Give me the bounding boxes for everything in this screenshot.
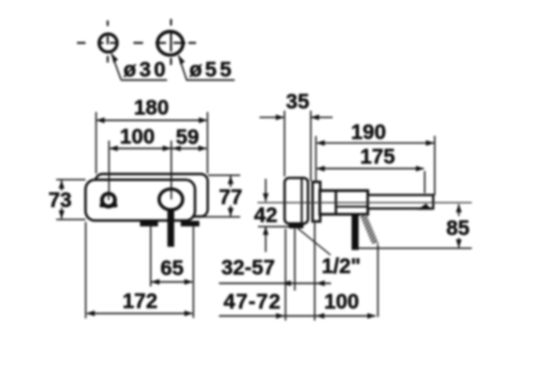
svg-text:ø30: ø30	[123, 58, 168, 81]
svg-text:73: 73	[48, 189, 71, 212]
svg-text:172: 172	[122, 290, 157, 313]
svg-text:85: 85	[446, 217, 470, 240]
svg-text:65: 65	[160, 257, 184, 280]
svg-text:35: 35	[286, 91, 310, 114]
svg-text:1/2": 1/2"	[322, 255, 361, 278]
svg-text:42: 42	[254, 204, 277, 227]
svg-text:180: 180	[134, 97, 169, 120]
svg-text:190: 190	[351, 121, 386, 144]
svg-text:100: 100	[120, 125, 155, 148]
svg-text:ø55: ø55	[189, 58, 234, 81]
svg-text:77: 77	[219, 186, 242, 209]
svg-text:100: 100	[324, 291, 359, 314]
svg-text:32-57: 32-57	[221, 257, 275, 280]
svg-text:47-72: 47-72	[224, 291, 282, 314]
svg-text:175: 175	[360, 146, 395, 169]
svg-text:59: 59	[176, 126, 199, 149]
